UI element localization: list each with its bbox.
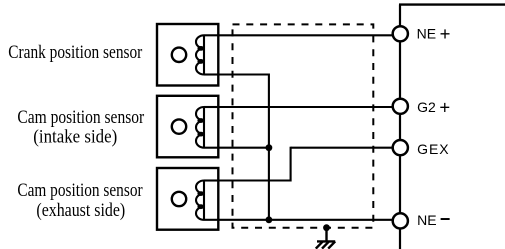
junction: shield to ground (323, 224, 330, 231)
wire: NE+ from crank sensor coil to NE+ terminal (204, 34, 397, 36)
terminal NE+ (393, 26, 408, 41)
wire: common vertical bus (268, 74, 270, 220)
label: Cam position sensor (exhaust side) (17, 180, 143, 221)
wire: jog up to GEX (290, 147, 292, 182)
terminal GEX (393, 140, 408, 155)
svg-text:NE+: NE+ (417, 23, 451, 44)
crank sensor rotor circle (172, 48, 186, 62)
terminal NE- (393, 213, 408, 228)
svg-text:G2+: G2+ (417, 96, 450, 117)
shield (dashed) (233, 24, 374, 227)
terminal G2+ (393, 99, 408, 114)
label: Cam position sensor (intake side) (17, 107, 144, 147)
svg-text:Cam position sensor: Cam position sensor (17, 107, 144, 128)
crank position sensor box (157, 24, 218, 86)
svg-text:Crank position sensor: Crank position sensor (8, 42, 143, 63)
ECU boundary line (399, 5, 505, 249)
wire: GEX to terminal (291, 147, 397, 149)
svg-text:Cam position sensor: Cam position sensor (17, 180, 143, 201)
wire: G2+ from intake cam sensor coil to G2+ terminal (204, 106, 397, 108)
svg-text:GEX: GEX (417, 141, 449, 157)
exhaust cam sensor pickup coil (196, 181, 218, 220)
intake cam sensor rotor circle (172, 119, 186, 133)
crank sensor pickup coil (196, 35, 218, 74)
junction: bus and intake cam bottom lead (266, 144, 273, 151)
wire: NE- from exhaust cam sensor to NE- terminal (204, 219, 397, 221)
junction: bus and NE- wire (266, 216, 273, 223)
intake cam sensor pickup coil (196, 107, 218, 148)
intake cam position sensor box (157, 96, 218, 158)
svg-text:NE−: NE− (417, 209, 450, 229)
wire: crank sensor bottom lead (204, 73, 269, 75)
ground (chassis) (316, 228, 335, 249)
svg-text:(intake side): (intake side) (33, 126, 117, 147)
exhaust cam sensor rotor circle (172, 192, 186, 206)
wire: exhaust cam sensor top lead (204, 179, 291, 181)
svg-text:(exhaust side): (exhaust side) (36, 200, 125, 221)
label: Crank position sensor (8, 42, 143, 63)
wire: intake cam sensor bottom lead (204, 147, 269, 149)
exhaust cam position sensor box (157, 168, 218, 230)
